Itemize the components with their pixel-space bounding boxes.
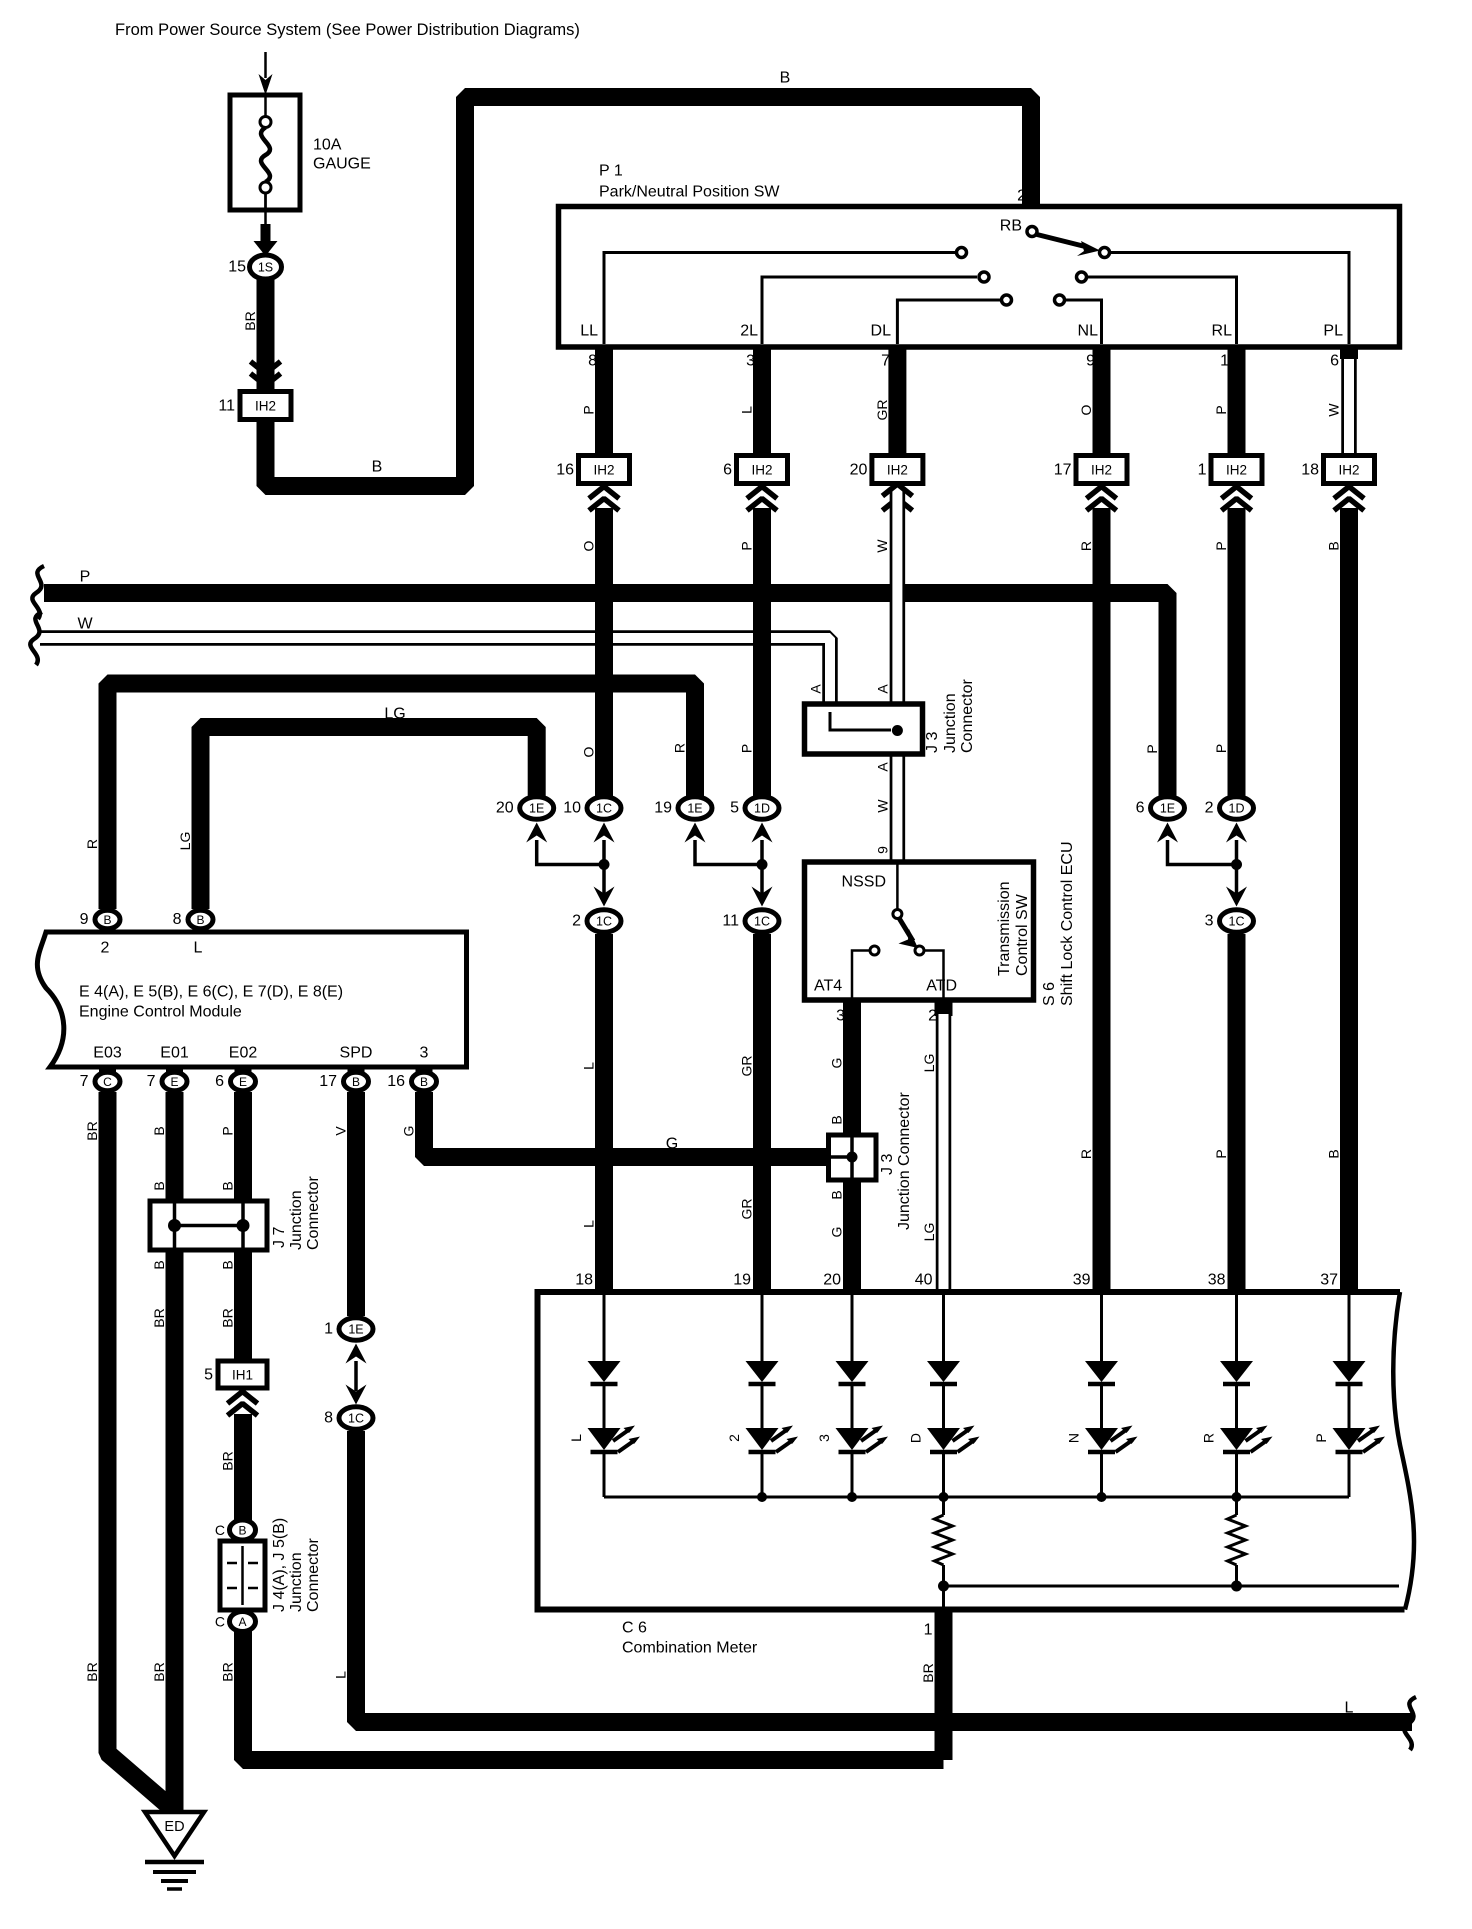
svg-text:3: 3 [836,1008,845,1025]
connector oval 10 1C [587,797,621,819]
wire from junction dot into 2 1C connector [602,865,606,895]
wire G from ECM pin 3 down then right into J3 junction connector [424,1092,852,1157]
wire P from 6 IH2 down to 5 1D connector [753,508,771,796]
svg-text:1C: 1C [754,915,770,929]
wire W (white) horizontal from left break to junction connector J3 branch [40,638,830,706]
meter lamp column N feed wire [1100,1292,1103,1362]
resistor in meter column R [1235,1497,1238,1515]
chevron harness marks below 1 IH2 [1222,487,1252,499]
svg-text:Junction: Junction [288,1552,305,1612]
svg-text:10A: 10A [313,137,342,154]
svg-text:SPD: SPD [340,1045,373,1062]
wire GR terminal DL of P1 to 20 IH2 [888,344,906,456]
svg-text:ED: ED [164,1819,184,1835]
svg-text:J 7: J 7 [271,1227,288,1248]
svg-text:8: 8 [173,911,182,928]
svg-text:P 1: P 1 [599,163,623,180]
junction dot below 2 1D [1231,859,1242,870]
wire from power source arrow into fuse [264,52,267,78]
svg-text:1S: 1S [258,261,273,275]
svg-text:1C: 1C [596,802,612,816]
svg-text:R: R [1078,541,1094,551]
svg-text:GR: GR [874,400,890,421]
svg-text:C: C [103,1075,112,1089]
svg-text:15: 15 [228,259,246,276]
P1 switch contact circle row2 right [1077,272,1087,282]
wire LG (white outline) from ATD stub down to meter terminal 40 [936,1014,952,1292]
svg-text:L: L [333,1671,349,1679]
connector box 20 IH2 [872,456,923,484]
svg-text:IH2: IH2 [887,463,908,478]
transmission switch arm with arrowhead toward ATD contact [899,918,913,941]
meter lamp common bus [604,1496,1349,1499]
svg-text:B: B [420,1075,428,1089]
connector oval 5 1D [745,797,779,819]
svg-text:2: 2 [726,1434,742,1442]
arrows and wire between 1 1E and 8 1C [346,1344,367,1364]
svg-text:11: 11 [218,398,235,415]
transmission switch NSSD wire into pivot [896,864,899,909]
connector oval 19 1E [678,797,712,819]
svg-text:BR: BR [920,1663,936,1682]
harness break symbol on wire L at bottom right [1404,1697,1416,1750]
svg-text:P: P [1213,744,1229,753]
svg-text:E02: E02 [229,1045,258,1062]
svg-text:9: 9 [80,911,89,928]
wire R from 17 IH2 down to combination meter terminal 39 [1093,508,1111,1292]
connector box 6 IH2 [737,456,788,484]
transmission switch contact circle ATD side [915,946,924,955]
svg-text:1: 1 [324,1321,333,1338]
svg-text:2: 2 [101,940,110,957]
harness break symbol on wire P at left edge [32,566,44,619]
ECM top pin 9 B [95,910,120,928]
svg-text:1D: 1D [1229,802,1245,816]
J3 junction connector box lower [829,1135,877,1180]
diode in meter column N [1085,1361,1118,1382]
svg-text:16: 16 [556,462,574,479]
svg-text:IH2: IH2 [1226,463,1247,478]
svg-text:40: 40 [915,1272,933,1289]
meter lamp column P feed wire [1348,1292,1351,1362]
svg-text:P: P [1213,405,1229,414]
svg-text:37: 37 [1320,1272,1338,1289]
svg-text:B: B [1326,1149,1342,1158]
arrow into 2 1D from below with wire to junction dot [1226,823,1247,843]
connector oval 15 1S [250,255,282,279]
ground symbol bars [145,1860,204,1865]
ECM bottom pin 16 B [416,1067,433,1077]
connector box 5 IH1 [218,1361,267,1388]
wire from junction dot into 3 1C connector [1235,865,1239,895]
svg-text:O: O [581,746,597,757]
svg-text:3: 3 [1205,913,1214,930]
indicator LED P in combination meter [1333,1428,1366,1450]
P1 switch contact circle row3 left [1002,295,1012,305]
wire from fuse to 15 1S connector [264,193,267,226]
wire BR from 1S connector to 11 IH2 [257,279,275,392]
connector box 17 IH2 [1076,456,1127,484]
svg-text:E 4(A), E 5(B), E 6(C), E 7(D): E 4(A), E 5(B), E 6(C), E 7(D), E 8(E) [79,984,343,1001]
P1 internal wire from terminal DL to contact row3 left [897,300,1000,344]
connector box 11 IH2 [240,392,291,420]
connector box 18 IH2 [1324,456,1375,484]
harness break symbol on wire W at left edge [30,612,42,665]
P1 Park/Neutral Position SW box [559,207,1400,348]
wire V/L from ECM pin SPD down to 1 1E connector [347,1092,365,1316]
svg-text:Transmission: Transmission [996,881,1013,976]
svg-text:20: 20 [823,1272,841,1289]
wire GR from 11 1C connector down to meter terminal 19 [753,934,771,1292]
connector box 16 IH2 [579,456,630,484]
svg-text:ATD: ATD [926,978,957,995]
svg-text:GAUGE: GAUGE [313,156,371,173]
meter lower bus to wavy edge with junction dots [944,1585,1400,1588]
svg-text:W: W [77,616,93,633]
ECM top pin 8 B [188,910,213,928]
svg-text:2L: 2L [740,323,758,340]
svg-text:C: C [215,1614,225,1630]
connector oval C B above J4/J5 [230,1520,256,1540]
connector oval 2 1D [1220,797,1254,819]
svg-text:G: G [829,1058,845,1069]
diode in meter column 3 [836,1361,869,1382]
wire L terminal 2L of P1 to 6 IH2 [753,344,771,456]
wire from AT4 contact to AT4 terminal [852,951,870,1001]
svg-text:6: 6 [723,462,732,479]
svg-text:E03: E03 [93,1045,122,1062]
svg-text:BR: BR [220,1308,236,1327]
svg-text:8: 8 [588,353,597,370]
svg-text:LL: LL [580,323,598,340]
svg-text:BR: BR [242,311,258,330]
wire LG from ECM pin 8 B up and across to 20 1E connector [201,727,537,909]
wire BR from meter terminal 1 down to BR bus corner [935,1610,953,1761]
svg-text:1E: 1E [529,802,544,816]
wire B from 18 IH2 down to combination meter terminal 37 [1340,508,1358,1292]
P1 internal wire from terminal NL to contact row3 right [1066,300,1102,344]
svg-text:LG: LG [384,706,405,723]
svg-text:8: 8 [324,1410,333,1427]
meter lamp column D feed wire [942,1292,945,1362]
svg-text:38: 38 [1208,1272,1226,1289]
chevron harness marks below 17 IH2 [1087,487,1117,499]
P1 switch contact circle row2 left [979,272,989,282]
indicator LED N in combination meter [1085,1428,1118,1450]
S6 transmission control SW / shift lock control ECU box [805,862,1034,1000]
svg-text:E: E [170,1075,178,1089]
svg-text:Engine Control Module: Engine Control Module [79,1004,242,1021]
chevron harness marks below 6 IH2 [747,487,777,499]
indicator LED 3 in combination meter [836,1428,869,1450]
svg-text:18: 18 [575,1272,593,1289]
svg-text:1: 1 [1220,353,1229,370]
svg-text:W: W [1326,403,1342,417]
svg-text:P: P [1144,744,1160,753]
meter lamp column 3 feed wire [851,1292,854,1362]
wire L from 8 1C connector down then right to bottom break [356,1431,1412,1722]
svg-text:2: 2 [572,913,581,930]
wire O from 16 IH2 down to 10 1C connector [595,508,613,796]
svg-text:P: P [739,541,755,550]
chevron harness marks below 16 IH2 [589,487,619,499]
svg-text:1E: 1E [1160,802,1175,816]
svg-text:B: B [829,1190,845,1199]
svg-text:19: 19 [733,1272,751,1289]
svg-text:GR: GR [739,1056,755,1077]
indicator LED D in combination meter [927,1428,960,1450]
svg-text:Junction: Junction [288,1190,305,1250]
svg-text:J 3: J 3 [879,1154,896,1175]
ECM bottom pin 17 B [348,1067,365,1077]
svg-text:Junction Connector: Junction Connector [896,1091,913,1230]
connector oval 1 1E on SPD wire [339,1318,373,1340]
wire P (pink) thick horizontal from left break to corner above 1E pin 6 [44,593,1168,796]
svg-text:C: C [215,1522,225,1538]
chevron harness marks below 18 IH2 [1334,487,1364,499]
svg-text:11: 11 [722,913,739,930]
connector oval C A below J4/J5 [230,1612,256,1632]
P1 rotary switch pivot RB [1027,227,1037,237]
wire BR from IH1 to J4/J5 and right to meter terminal 1 [243,1414,944,1760]
svg-text:Control SW: Control SW [1014,893,1031,976]
svg-text:DL: DL [871,323,892,340]
wire P terminal LL of P1 to 16 IH2 [595,344,613,456]
meter lamp column 2 feed wire [761,1292,764,1362]
svg-text:AT4: AT4 [814,978,842,995]
svg-text:NL: NL [1078,323,1099,340]
svg-text:1D: 1D [754,802,770,816]
svg-text:9: 9 [1086,353,1095,370]
indicator LED R in combination meter [1220,1428,1253,1450]
junction dot below 5 1D [757,859,768,870]
indicator LED 2 in combination meter [746,1428,779,1450]
engine control module box with wavy left edge [37,932,466,1067]
P1 switch arm from RB pivot with arrowhead [1035,234,1087,247]
P1 internal wire from terminal 2L to contact row2 left [762,277,977,344]
J3 junction connector box upper [805,704,923,754]
meter lamp column L feed wire [603,1292,606,1362]
arrow into 5 1D from below with wire to junction dot [752,823,773,843]
svg-text:6: 6 [1136,800,1145,817]
chevron harness marks above 11 IH2 [251,362,281,374]
connector oval 20 1E [520,797,554,819]
svg-text:IH2: IH2 [1091,463,1112,478]
J7 junction connector internal wires with dots [173,1203,177,1248]
svg-text:1C: 1C [348,1412,364,1426]
svg-text:From Power Source System (See: From Power Source System (See Power Dist… [115,21,580,39]
svg-text:B: B [829,1115,845,1124]
svg-text:7: 7 [881,353,890,370]
arrow into 6 1E from below and link to junction dot [1157,823,1178,843]
svg-text:C 6: C 6 [622,1620,647,1637]
svg-text:17: 17 [319,1073,337,1090]
combination meter wavy right edge [1393,1292,1414,1610]
svg-text:6: 6 [215,1073,224,1090]
svg-text:RL: RL [1212,323,1233,340]
svg-text:PL: PL [1323,323,1343,340]
svg-text:18: 18 [1301,462,1319,479]
svg-text:D: D [908,1433,924,1443]
svg-text:NSSD: NSSD [842,874,886,891]
meter lamp column R feed wire [1235,1292,1238,1362]
arrow into 19 1E from below and link to junction dot [685,823,706,843]
svg-text:LG: LG [921,1054,937,1073]
svg-text:7: 7 [147,1073,156,1090]
combination meter box with wavy right edge [538,1292,1415,1610]
svg-text:J 4(A), J 5(B): J 4(A), J 5(B) [271,1518,288,1612]
svg-text:1C: 1C [1229,915,1245,929]
diode in meter column L [588,1361,621,1382]
svg-text:Shift Lock Control ECU: Shift Lock Control ECU [1059,841,1076,1006]
svg-text:2: 2 [928,1008,937,1025]
chevron harness marks below 5 IH1 [228,1392,258,1404]
svg-text:P: P [1313,1433,1329,1442]
svg-text:B: B [352,1075,360,1089]
svg-text:R: R [672,743,688,753]
wire BR from ECM pin E02 through J7, IH1, J4/J5 then right to meter terminal 1 [234,1092,252,1361]
wire from ATD contact to ATD terminal [924,951,944,1001]
wire W (white) from 20 IH2 down to J3 junction connector [890,487,906,706]
svg-text:G: G [401,1126,417,1137]
svg-text:W: W [875,799,891,813]
P1 switch contact circle row1 left [957,248,967,258]
P1 switch contact circle row1 right [1100,248,1110,258]
svg-text:10: 10 [563,800,581,817]
diode in meter column R [1220,1361,1253,1382]
svg-text:IH2: IH2 [593,463,614,478]
svg-text:5: 5 [730,800,739,817]
svg-text:B: B [103,913,111,927]
svg-text:B: B [372,459,383,476]
svg-text:B: B [151,1260,167,1269]
svg-text:B: B [1326,541,1342,550]
svg-text:3: 3 [816,1434,832,1442]
svg-text:N: N [1066,1433,1082,1443]
svg-text:B: B [151,1181,167,1190]
wire B from fuse via 11 IH2 to P1 terminal 2 [266,97,1032,486]
svg-text:L: L [568,1434,584,1442]
wire BR from ECM pin E01 down to ground ED triangle [166,1092,184,1812]
svg-text:P: P [80,569,91,586]
svg-text:19: 19 [654,800,672,817]
ECM bottom pin 7 C [99,1067,116,1077]
P1 switch contact circle row3 right [1055,295,1065,305]
svg-text:A: A [807,684,823,694]
diode in meter column P [1333,1361,1366,1382]
J3 lower junction connector internal wires and dot [850,1137,854,1178]
ECM bottom pin 7 E [166,1067,183,1077]
connector oval 11 1C [745,910,779,932]
fuse element symbol [260,117,271,128]
terminal stub ATD of transmission control switch [935,1000,953,1016]
svg-text:B: B [780,70,791,87]
svg-text:BR: BR [151,1662,167,1681]
svg-text:L: L [1345,1700,1354,1717]
svg-text:Park/Neutral Position SW: Park/Neutral Position SW [599,184,780,201]
svg-text:17: 17 [1054,462,1072,479]
svg-text:B: B [196,913,204,927]
diode in meter column D [927,1361,960,1382]
svg-text:G: G [829,1227,845,1238]
svg-text:R: R [1201,1433,1217,1443]
connector box 1 IH2 [1211,456,1262,484]
J3 upper junction connector internal link and dot [830,712,891,730]
J4/J5 junction connector internal contacts [241,1546,244,1605]
svg-text:P: P [739,744,755,753]
svg-text:O: O [1078,404,1094,415]
svg-text:L: L [194,940,203,957]
svg-text:B: B [238,1524,246,1538]
svg-text:1E: 1E [687,802,702,816]
P1 internal wire from terminal PL to contact row1 right [1111,253,1349,345]
svg-text:IH2: IH2 [255,399,276,414]
svg-text:BR: BR [84,1662,100,1681]
svg-text:Connector: Connector [305,1538,322,1612]
svg-text:Junction: Junction [942,693,959,753]
svg-text:B: B [151,1126,167,1135]
svg-text:V: V [333,1126,349,1136]
svg-text:G: G [666,1136,678,1153]
svg-text:BR: BR [220,1451,236,1470]
indicator LED L in combination meter [588,1428,621,1450]
svg-text:A: A [875,762,891,772]
connector oval 3 1C [1220,910,1254,932]
svg-text:20: 20 [850,462,868,479]
diode in meter column 2 [746,1361,779,1382]
svg-text:BR: BR [220,1662,236,1681]
wire L from 2 1C connector down to meter terminal 18 [595,934,613,1292]
svg-text:E01: E01 [160,1045,189,1062]
svg-text:1: 1 [924,1622,933,1639]
J4(A) J5(B) junction connector box [220,1541,265,1610]
svg-text:Connector: Connector [959,679,976,753]
svg-text:Connector: Connector [305,1176,322,1250]
svg-text:6: 6 [1330,353,1339,370]
svg-text:LG: LG [921,1223,937,1242]
transmission switch contact circle AT4 side [870,946,879,955]
svg-text:1: 1 [1198,462,1207,479]
svg-text:9: 9 [875,846,891,854]
svg-text:P: P [1213,1149,1229,1158]
svg-text:2: 2 [1017,188,1026,205]
svg-text:LG: LG [177,832,193,851]
ECM bottom pin 6 E [235,1067,252,1077]
svg-text:L: L [581,1062,597,1070]
wire P from 3 1C connector down to meter terminal 38 [1228,934,1246,1292]
svg-text:O: O [581,540,597,551]
chevron mark above 20 IH2 drawn beneath hollow wire [882,499,912,511]
wire W (white) terminal PL of P1 down to 18 IH2 [1341,344,1357,456]
svg-text:R: R [1078,1149,1094,1159]
resistor in meter column D [942,1497,945,1515]
svg-text:BR: BR [151,1308,167,1327]
wire G from transmission switch AT4 down to meter terminal 20 [843,1000,861,1292]
svg-text:1E: 1E [348,1323,363,1337]
svg-text:S 6: S 6 [1041,982,1058,1006]
svg-text:16: 16 [387,1073,405,1090]
wire segments inside fuse box [264,97,267,117]
arrow into 10 1C from below with wire to junction dot [594,823,615,843]
svg-text:B: B [220,1260,236,1269]
wire BR from ECM pin E03 down to ground ED [108,1092,170,1806]
svg-text:P: P [581,405,597,414]
svg-text:A: A [875,684,891,694]
wire P from 1 IH2 down to 2 1D connector [1228,508,1246,796]
J7 junction connector box [150,1201,267,1250]
wire R from ECM pin 9 B up and across to 19 1E connector [108,684,696,910]
junction dot below 10 1C [599,859,610,870]
